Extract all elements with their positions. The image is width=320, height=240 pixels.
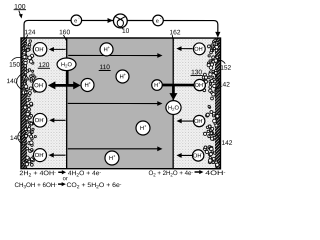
- svg-text:CO2 + 5H2O + 6e-: CO2 + 5H2O + 6e-: [66, 181, 122, 189]
- cathode chamber 130 (stippled): [173, 38, 215, 169]
- svg-text:10: 10: [122, 28, 130, 35]
- H+ drift arrow bottom: [68, 148, 158, 150]
- water forming junction right (thick): [162, 85, 194, 94]
- water splitting junction left (thick): [54, 69, 75, 85]
- svg-text:160: 160: [59, 29, 70, 36]
- OH- arrow left row3: [53, 119, 65, 121]
- OH- arrow left row4: [53, 154, 66, 156]
- svg-text:2H2 + 4OH-: 2H2 + 4OH-: [19, 170, 56, 178]
- membrane left boundary 160: [66, 38, 68, 169]
- wire arrowhead before load: [108, 18, 113, 23]
- cell outer border: [21, 38, 221, 169]
- H+ drift arrow top: [68, 54, 158, 56]
- gas bubbles left wall: [22, 40, 37, 166]
- svg-text:CH3OH + 6OH-: CH3OH + 6OH-: [14, 181, 57, 189]
- H+ ion circles membrane: [100, 43, 113, 56]
- svg-text:e: e: [74, 18, 77, 24]
- load 10 (lamp): [113, 14, 127, 29]
- anode eq2 arrow: [62, 182, 66, 186]
- membrane 110 (gray): [67, 38, 174, 169]
- H+ drift arrow middle: [68, 102, 158, 104]
- circuit wire: [24, 20, 218, 38]
- anode chamber 120 (stippled): [27, 38, 67, 169]
- svg-text:162: 162: [170, 29, 181, 36]
- right electrode wall (hatched): [215, 38, 221, 169]
- svg-text:4H2O + 4e-: 4H2O + 4e-: [68, 170, 102, 178]
- membrane right boundary 162: [172, 38, 174, 169]
- arrow from 100 to cell: [19, 11, 21, 15]
- OH- ion circles left column: [33, 43, 47, 57]
- left electrode wall 124 (hatched): [21, 38, 27, 169]
- cathode eq arrow: [199, 170, 203, 174]
- svg-text:e: e: [156, 19, 159, 25]
- wire arrowhead into right wall: [215, 32, 220, 38]
- svg-text:H2O: H2O: [61, 62, 72, 68]
- svg-text:4OH-: 4OH-: [205, 169, 226, 177]
- OH- arrow left row1: [53, 48, 66, 50]
- H2O oval left: [57, 58, 76, 71]
- anode eq1 arrow: [62, 170, 66, 174]
- svg-text:142: 142: [219, 82, 230, 89]
- svg-text:142: 142: [221, 140, 232, 147]
- OH- arrow right row1: [181, 48, 193, 50]
- gas bubbles right wall: [202, 39, 219, 166]
- electron e- left: [71, 15, 82, 26]
- svg-text:152: 152: [220, 65, 231, 72]
- electron e- right: [153, 15, 164, 26]
- svg-text:150: 150: [9, 62, 20, 69]
- OH- ion circles right column: [193, 43, 205, 55]
- OH- arrow right row3: [181, 120, 194, 122]
- OH- arrow right row4: [181, 154, 193, 156]
- svg-text:124: 124: [24, 29, 35, 36]
- svg-text:H2O: H2O: [168, 106, 179, 112]
- H2O oval right: [166, 101, 181, 115]
